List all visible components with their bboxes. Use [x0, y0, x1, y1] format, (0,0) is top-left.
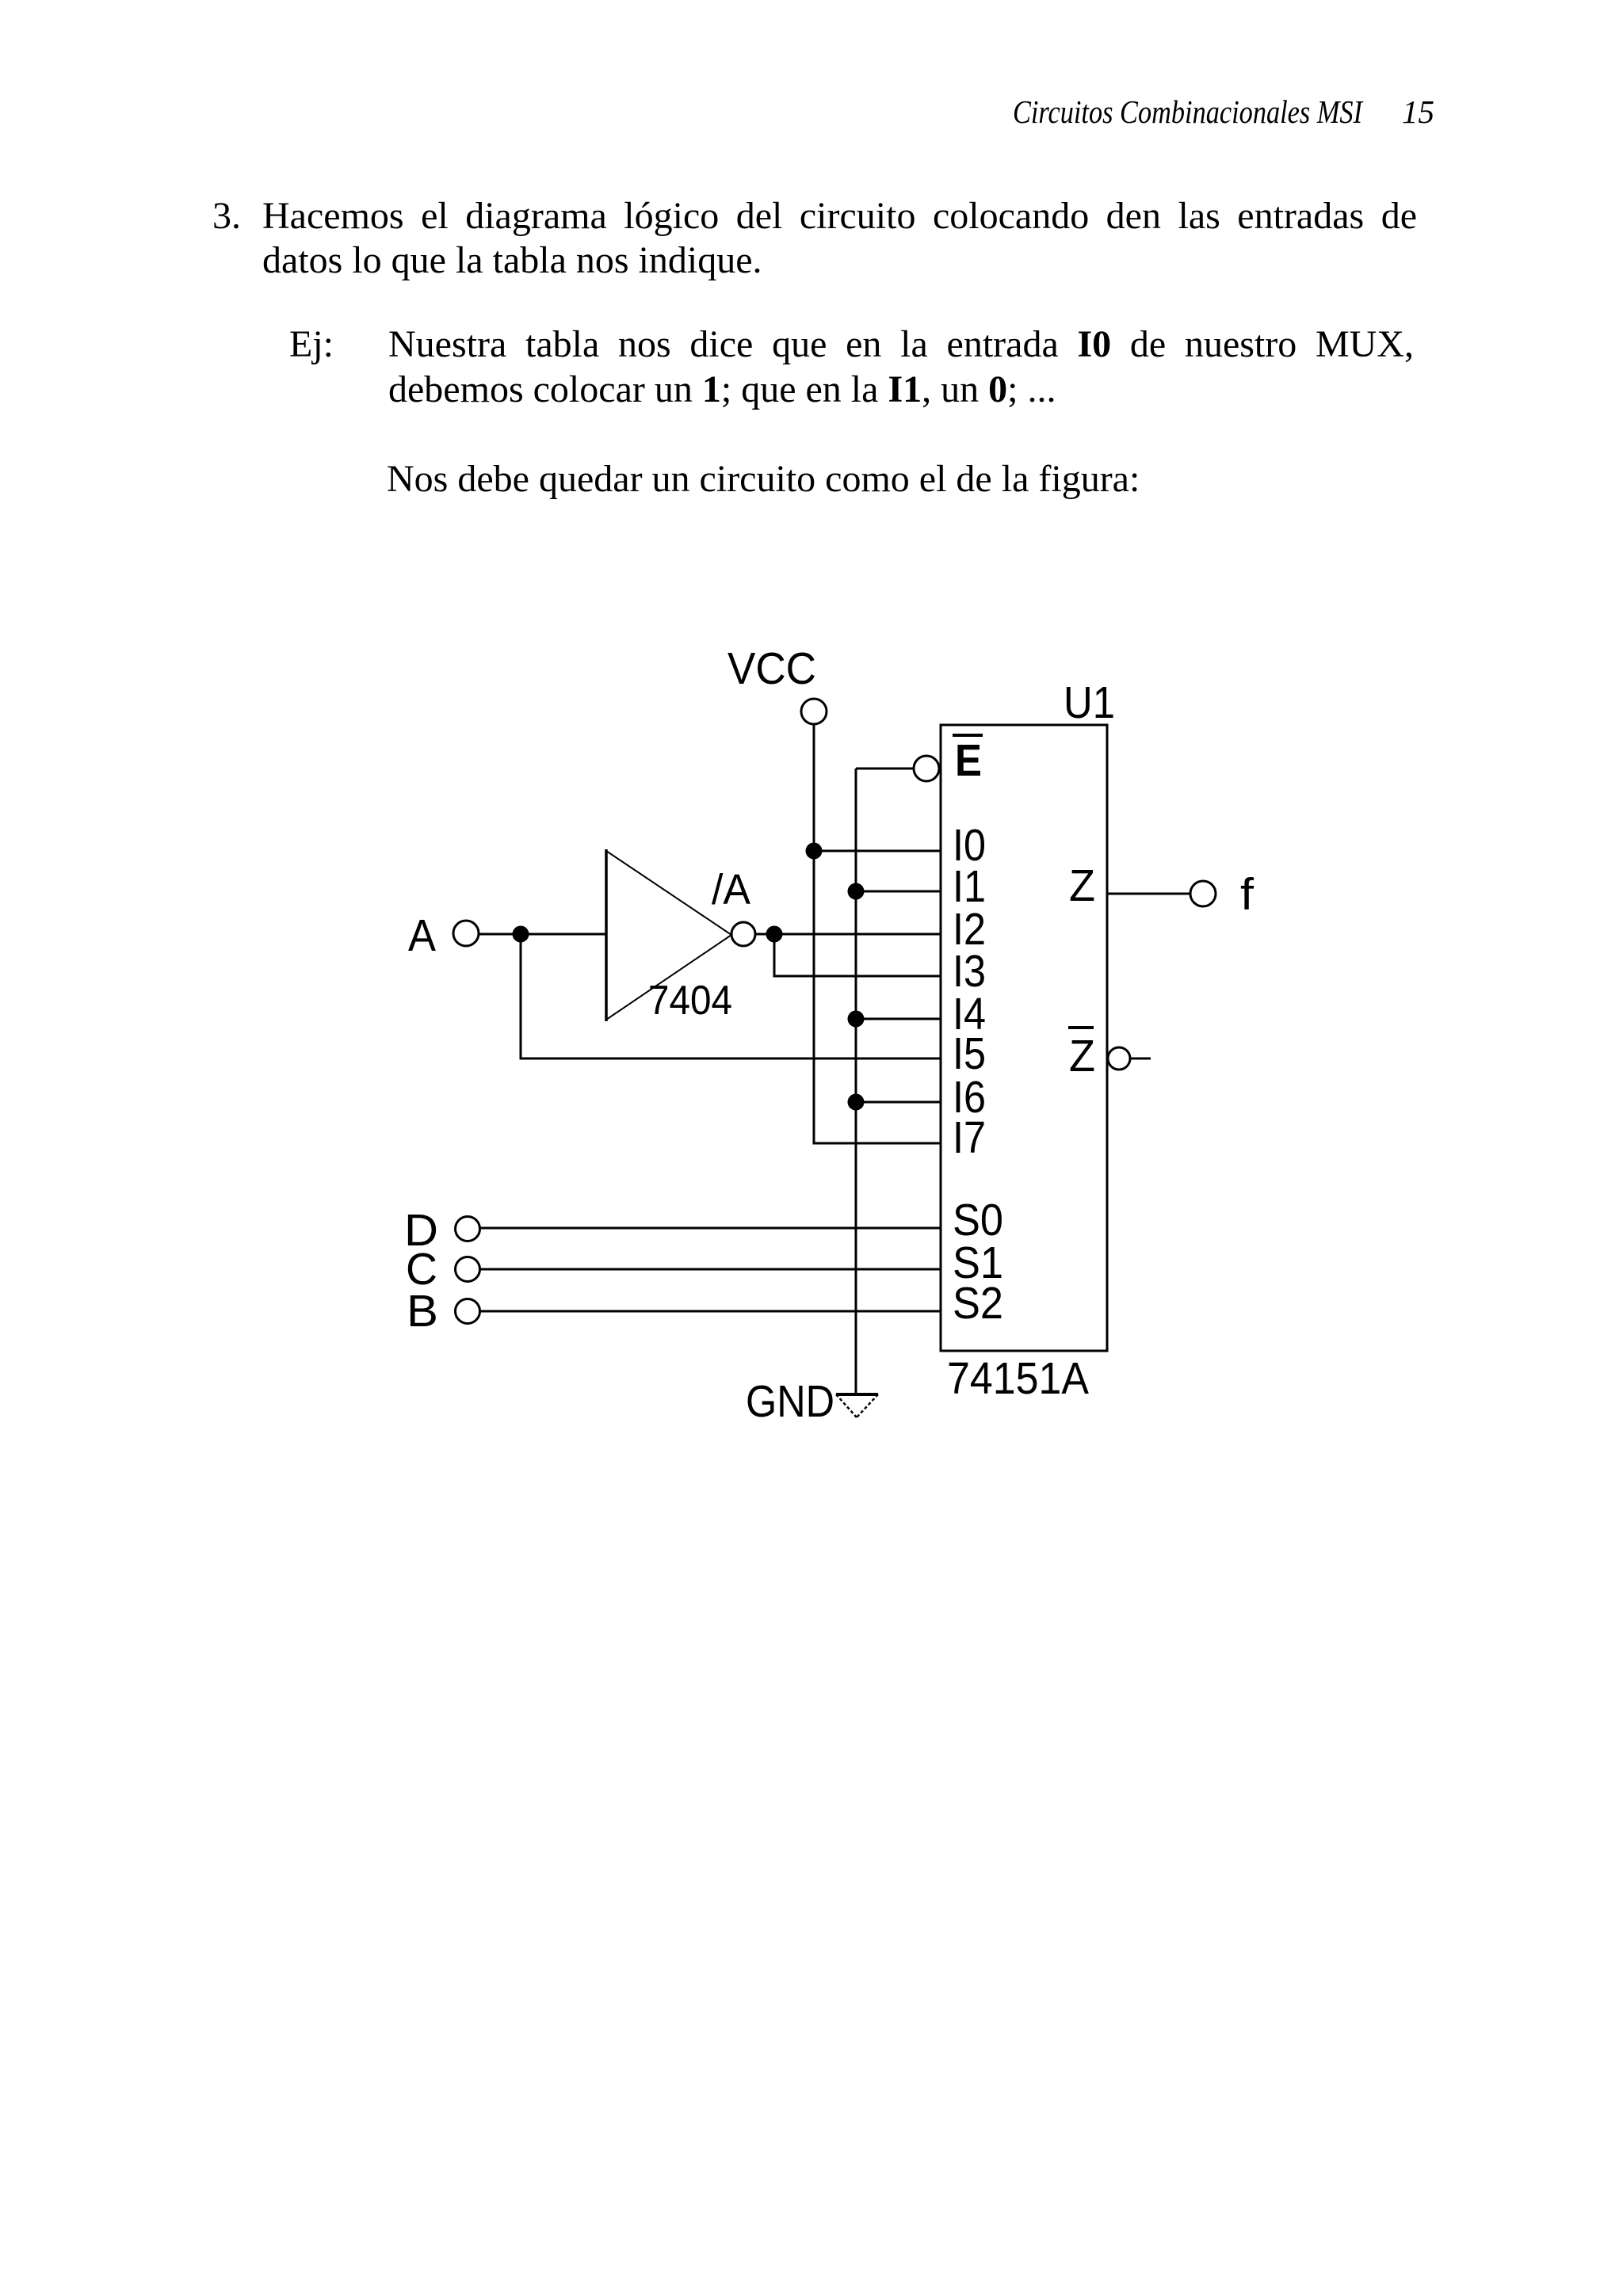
wire D to S0	[480, 1227, 941, 1230]
label 7404	[648, 978, 732, 1024]
svg-text:7404: 7404	[648, 978, 732, 1024]
terminal circle D	[456, 1217, 480, 1241]
VCC terminal circle	[801, 699, 827, 724]
wire B to S2	[480, 1310, 941, 1313]
node label D	[404, 1205, 438, 1256]
terminal circle B	[456, 1299, 480, 1324]
node label A	[408, 910, 436, 961]
junction dot I1	[848, 883, 865, 900]
wire I4	[856, 1018, 941, 1020]
label 74151A	[947, 1353, 1089, 1404]
pin label I3	[953, 946, 986, 997]
wire C to S1	[480, 1268, 941, 1271]
svg-text:Z: Z	[1069, 860, 1095, 911]
pin label S2	[953, 1278, 1003, 1329]
pin label I7	[953, 1112, 986, 1163]
svg-text:E: E	[955, 735, 982, 786]
junction dot /A	[766, 926, 783, 943]
wire Z output	[1107, 893, 1190, 895]
header	[1013, 96, 1362, 128]
svg-text:I7: I7	[953, 1112, 986, 1163]
node label C	[406, 1244, 437, 1295]
stub wire Zbar	[1131, 1058, 1151, 1060]
inverter output bubble	[731, 922, 755, 946]
pin label I1	[953, 861, 986, 912]
label GND	[746, 1376, 834, 1427]
svg-text:/A: /A	[712, 866, 750, 913]
wire A input	[479, 933, 606, 936]
pin label Zbar	[1069, 1031, 1095, 1081]
node label B	[407, 1286, 438, 1337]
ground symbol	[836, 1394, 878, 1417]
Ej paragraph	[289, 326, 334, 364]
enable bubble E	[914, 756, 939, 781]
inverter 7404 triangle	[606, 849, 731, 1021]
wire /A to I3	[774, 934, 941, 976]
pin label S1	[953, 1238, 1003, 1288]
junction dot VCC/I0	[806, 843, 823, 860]
wire inverter output to I2	[755, 933, 941, 936]
terminal circle f	[1190, 881, 1216, 906]
terminal circle C	[456, 1257, 480, 1282]
pin label E	[955, 735, 982, 786]
pin label I6	[953, 1072, 986, 1123]
svg-text:74151A: 74151A	[947, 1353, 1089, 1404]
svg-text:A: A	[408, 910, 436, 961]
pin label I0	[953, 820, 986, 871]
svg-text:VCC: VCC	[727, 643, 816, 694]
svg-text:GND: GND	[746, 1376, 834, 1427]
wire I1	[856, 891, 941, 893]
label /A	[712, 866, 750, 913]
svg-text:U1: U1	[1064, 677, 1115, 728]
junction dot I6	[848, 1094, 865, 1111]
junction dot A	[513, 926, 529, 943]
power VCC label	[727, 643, 816, 694]
pin Zbar overline	[1068, 1026, 1094, 1029]
label U1	[1064, 677, 1115, 728]
pin label I5	[953, 1028, 986, 1079]
wire I0	[814, 850, 941, 852]
paragraph 3	[212, 197, 241, 235]
pin label S0	[953, 1195, 1003, 1245]
svg-text:S2: S2	[953, 1278, 1003, 1329]
IC U1 box 74151A	[941, 725, 1107, 1351]
wire GND rail vertical	[855, 769, 857, 1394]
pin E overline	[953, 734, 983, 737]
svg-text:B: B	[407, 1286, 438, 1337]
wire I7	[813, 1142, 941, 1145]
pin label Z	[1069, 860, 1095, 911]
wire VCC rail vertical	[813, 724, 815, 1143]
junction dot I4	[848, 1011, 865, 1028]
wire E	[856, 768, 914, 770]
inversion bubble Zbar	[1108, 1047, 1130, 1070]
node label f	[1240, 869, 1254, 920]
pin label I2	[953, 904, 986, 955]
wire A to I5	[521, 934, 941, 1058]
pin label I4	[953, 989, 986, 1039]
svg-text:Z: Z	[1069, 1031, 1095, 1081]
wire I6	[856, 1101, 941, 1104]
svg-text:f: f	[1240, 869, 1254, 920]
terminal circle A	[453, 921, 479, 946]
